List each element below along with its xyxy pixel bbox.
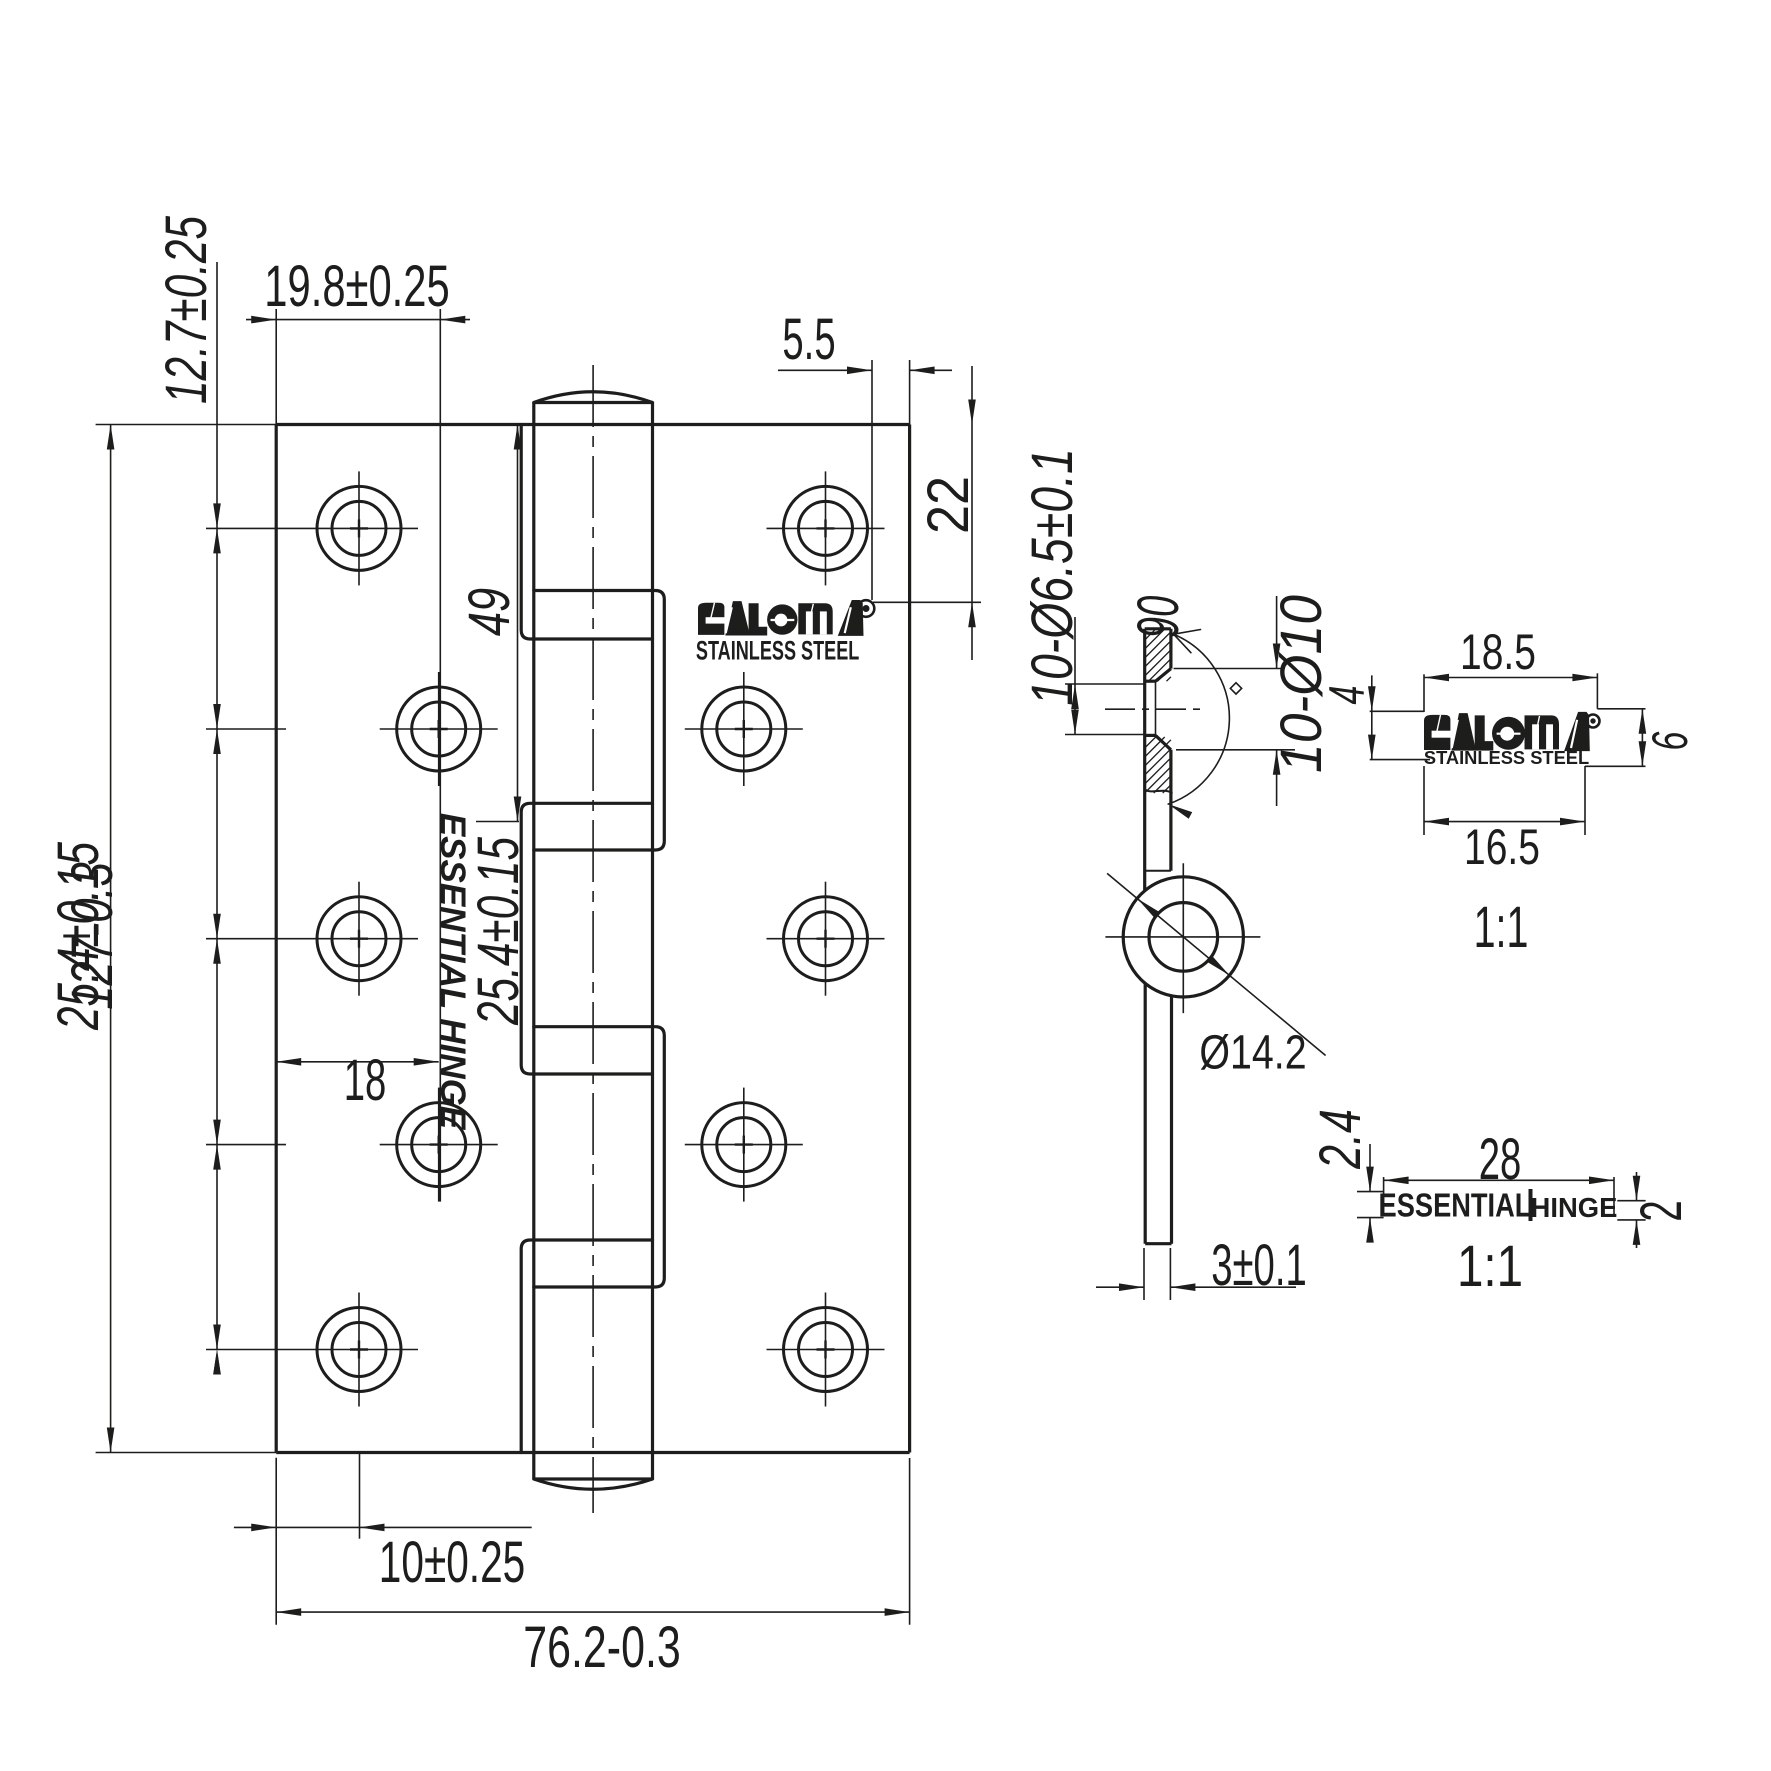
svg-text:3±0.1: 3±0.1: [1211, 1234, 1306, 1298]
dimension 5.5 (top right): [778, 308, 952, 600]
PALOMA logo on plate: [696, 600, 874, 665]
screw hole row 5 right: [767, 1293, 885, 1407]
screw hole row 4 left: [206, 1088, 498, 1202]
PALOMA logo detail: [1424, 712, 1600, 768]
top-left extension of plate top edge: [96, 424, 277, 426]
svg-text:49: 49: [457, 588, 521, 636]
hatching upper block: [1145, 629, 1171, 681]
svg-text:1:1: 1:1: [1457, 1235, 1523, 1300]
svg-text:STAINLESS STEEL: STAINLESS STEEL: [696, 635, 859, 666]
hinge barrel / pin: [534, 392, 653, 1490]
svg-text:10-Ø6.5±0.1: 10-Ø6.5±0.1: [1020, 448, 1085, 706]
break tick upper strip bottom: [1145, 870, 1171, 872]
plate bottom edge extension to the left (127 dim): [96, 1452, 277, 1454]
dimension Ø14.2 leader: [1107, 873, 1326, 1079]
svg-text:25.4±0.15: 25.4±0.15: [45, 841, 110, 1030]
screw hole row 2 right: [685, 672, 803, 786]
leaf section outline upper part: [1145, 629, 1171, 891]
svg-text:STAINLESS STEEL: STAINLESS STEEL: [1424, 747, 1589, 768]
dimension 16.5: [1424, 766, 1585, 875]
dimension 4: [1320, 675, 1430, 759]
svg-text:HINGE: HINGE: [1531, 1192, 1618, 1223]
extension line plate bottom left: [275, 1458, 277, 1625]
hinge plate outline (front view): [276, 425, 909, 1453]
screw hole row 1 left: [206, 471, 418, 585]
svg-text:5.5: 5.5: [782, 308, 835, 372]
screw hole row 1 right: [767, 471, 885, 585]
svg-text:2.4: 2.4: [1308, 1109, 1373, 1170]
svg-text:18.5: 18.5: [1460, 623, 1536, 680]
dimension 10-Ø10: [1174, 595, 1334, 806]
dimension 76.2-0.3 (bottom overall): [276, 1458, 909, 1680]
dimension 19.8±0.25 (top): [246, 253, 470, 1201]
svg-text:90: 90: [1127, 596, 1191, 639]
dimension 18.5: [1424, 623, 1597, 712]
dimension 2: [1617, 1172, 1694, 1248]
J3 top line + right leaf wrap segment 2 + J4 bottom line: [534, 1027, 665, 1287]
dimension chain 25.4±0.15 (left): [45, 262, 220, 1375]
dimension 28: [1384, 1128, 1614, 1216]
svg-text:2: 2: [1630, 1200, 1694, 1221]
small diamond marker: [1230, 683, 1241, 694]
dimension 49 (barrel): [457, 425, 521, 822]
90 degree bend arc: [1168, 634, 1229, 804]
dimension 10±0.25 (bottom): [234, 1454, 532, 1595]
knuckle circle (section): [1105, 863, 1260, 1013]
left leaf wrap segment 1 + J1 bottom line: [521, 425, 652, 640]
svg-text:10-Ø10: 10-Ø10: [1269, 595, 1334, 773]
J4 top line + left leaf wrap segment 3: [521, 1240, 652, 1453]
break line: [1145, 789, 1172, 792]
screw hole row 3 right: [767, 882, 885, 996]
barrel centerline: [592, 365, 594, 1513]
hole centerline (section): [1105, 708, 1206, 710]
screw hole row 2 left: [206, 672, 498, 786]
svg-text:10±0.25: 10±0.25: [379, 1530, 525, 1595]
dimension 2.4: [1308, 1109, 1384, 1242]
svg-text:25.4±0.15: 25.4±0.15: [465, 836, 530, 1025]
screw hole row 3 left: [206, 882, 418, 996]
hatching lower block: [1145, 737, 1171, 793]
ESSENTIAL HINGE logotype: [1379, 1188, 1618, 1224]
filled arrowhead of 90 arc: [1168, 804, 1192, 819]
svg-text:Ø14.2: Ø14.2: [1199, 1026, 1306, 1080]
dimension 127-0.3 (overall height, left): [60, 425, 124, 1453]
dimension 18: [276, 1049, 439, 1113]
svg-text:18: 18: [344, 1049, 387, 1113]
dimension 3±0.1 (leaf thickness): [1096, 1234, 1307, 1300]
svg-text:19.8±0.25: 19.8±0.25: [264, 253, 449, 318]
svg-text:6: 6: [1643, 731, 1699, 750]
svg-text:22: 22: [915, 476, 980, 534]
J2 top line + left leaf wrap segment 2 + J3 bottom line: [521, 803, 652, 1074]
lower leaf strip (section): [1145, 983, 1171, 1244]
countersunk hole section: [1145, 669, 1171, 750]
dimension 6: [1585, 709, 1699, 767]
dimension 10-Ø6.5±0.1: [1020, 448, 1146, 734]
open arrowhead of 90 arc: [1174, 630, 1201, 653]
svg-text:16.5: 16.5: [1464, 818, 1540, 875]
svg-text:28: 28: [1479, 1128, 1522, 1192]
svg-text:76.2-0.3: 76.2-0.3: [523, 1615, 680, 1680]
screw hole row 4 right: [685, 1088, 803, 1202]
dimension 22 (right): [873, 366, 981, 660]
knuckle junctions: [521, 425, 664, 1453]
svg-text:1:1: 1:1: [1474, 894, 1529, 959]
svg-text:12.7±0.25: 12.7±0.25: [153, 215, 218, 404]
J1 top line + right leaf wrap segment 1 + J2 bottom line: [534, 591, 665, 851]
svg-text:ESSENTIAL: ESSENTIAL: [1379, 1188, 1532, 1224]
screw hole row 5 left: [206, 1293, 418, 1407]
svg-text:4: 4: [1320, 686, 1376, 705]
